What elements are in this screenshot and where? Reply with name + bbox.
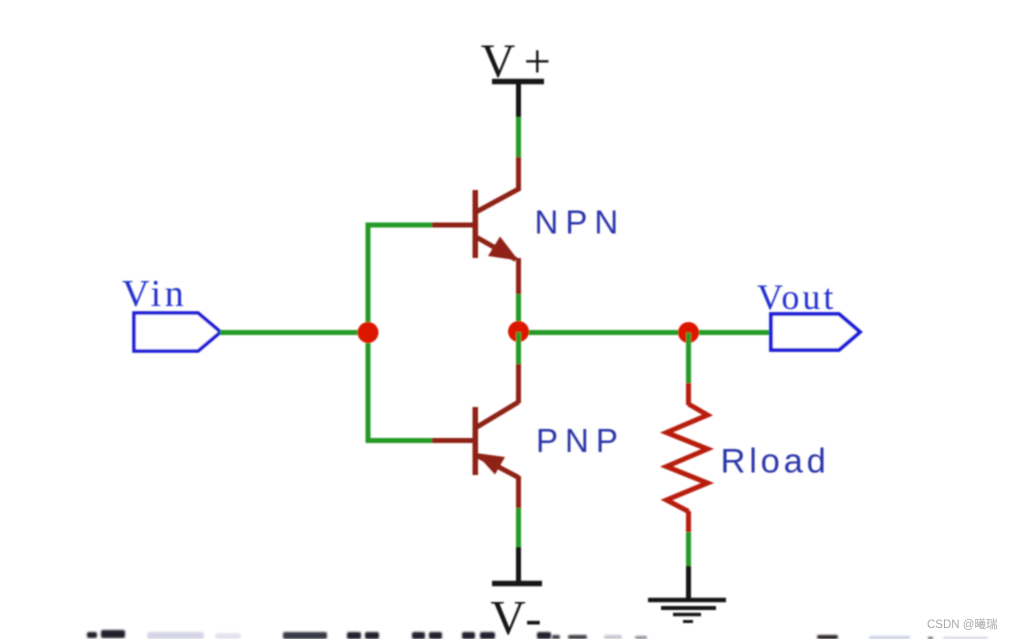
- svg-text:Vout: Vout: [757, 277, 836, 317]
- svg-text:CSDN @曦瑞: CSDN @曦瑞: [927, 617, 997, 631]
- power symbol V-: [492, 547, 542, 584]
- svg-text:Vin: Vin: [122, 273, 187, 315]
- transistor Q1 NPN: [431, 157, 519, 295]
- svg-text:Rload: Rload: [721, 443, 830, 481]
- wire input node vertical: [366, 225, 371, 441]
- wire Rload node down: [686, 333, 691, 385]
- wire output node to Vout: [519, 330, 772, 335]
- transistor Q2 PNP: [431, 364, 519, 509]
- port Vout: [771, 314, 860, 350]
- wire Rload to ground: [686, 532, 691, 567]
- wire output node to Q2 emitter: [516, 332, 521, 366]
- wire Vin to input node: [220, 330, 368, 335]
- wire to Q1 base: [366, 223, 433, 228]
- wire to Q2 base: [366, 438, 433, 443]
- svg-text:PNP: PNP: [536, 422, 625, 459]
- junction Rload node: [678, 322, 699, 343]
- port Vin: [134, 313, 221, 351]
- wire Q1 emitter to output node: [516, 294, 521, 333]
- svg-text:V-: V-: [490, 590, 545, 639]
- junction output node: [508, 321, 529, 342]
- wire V+ to Q1 collector: [516, 117, 521, 158]
- wire Q2 collector to V-: [516, 508, 521, 548]
- junction input node: [358, 322, 379, 343]
- power symbol V+: [492, 82, 544, 119]
- svg-text:NPN: NPN: [535, 204, 626, 241]
- cut-off caption artifacts at bottom edge: [87, 630, 988, 639]
- resistor Rload: [667, 383, 708, 533]
- ground: [648, 566, 726, 622]
